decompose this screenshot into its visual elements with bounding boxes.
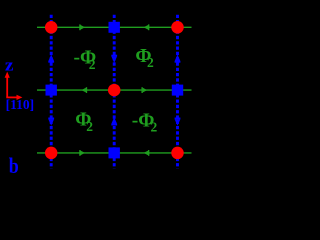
node: blue site (1,2): [46, 85, 57, 96]
arrow: col3 lower (points down): [175, 118, 181, 126]
arrow: row2 right (points right): [141, 87, 147, 93]
node: blue site (2,3): [109, 147, 120, 158]
arrow: col1 lower (points down): [48, 118, 54, 126]
svg-text:z: z: [5, 56, 14, 75]
arrow: row1 left (points right): [79, 24, 85, 30]
node: red site (3,1): [171, 21, 184, 34]
wire: vertical dashed bond column 3: [176, 15, 179, 169]
arrow: col2 lower (points up): [111, 117, 117, 125]
node: red site (3,3): [171, 147, 184, 160]
node: red site (1,3): [45, 147, 58, 160]
axis: [110] arrow (red, right): [6, 96, 17, 98]
wire: vertical dashed bond column 2: [113, 15, 116, 169]
svg-text:2: 2: [147, 55, 154, 70]
arrow: col1 upper (points up): [48, 55, 54, 63]
node: red site (1,1): [45, 21, 58, 34]
svg-text:b: b: [9, 153, 19, 178]
wire: horizontal bond row 3: [37, 152, 192, 154]
arrow: row1 right (points left): [144, 24, 150, 30]
wire: vertical dashed bond column 1: [50, 15, 53, 169]
arrow: row3 right (points left): [144, 150, 150, 156]
wire: horizontal bond row 2: [37, 89, 192, 91]
arrow: col2 upper (points down): [111, 55, 117, 63]
svg-text:2: 2: [89, 57, 96, 72]
arrow: row2 left (points left): [81, 87, 87, 93]
wire: horizontal bond row 1: [37, 26, 192, 28]
arrow: col3 upper (points up): [175, 55, 181, 63]
svg-text:2: 2: [151, 120, 158, 135]
arrow: row3 left (points right): [79, 150, 85, 156]
node: red site (2,2): [108, 84, 121, 97]
svg-text:[110]: [110]: [6, 97, 34, 112]
svg-text:2: 2: [86, 119, 93, 134]
node: blue site (3,2): [172, 85, 183, 96]
node: blue site (2,1): [109, 22, 120, 33]
axis: z arrow (red, up): [6, 77, 8, 98]
